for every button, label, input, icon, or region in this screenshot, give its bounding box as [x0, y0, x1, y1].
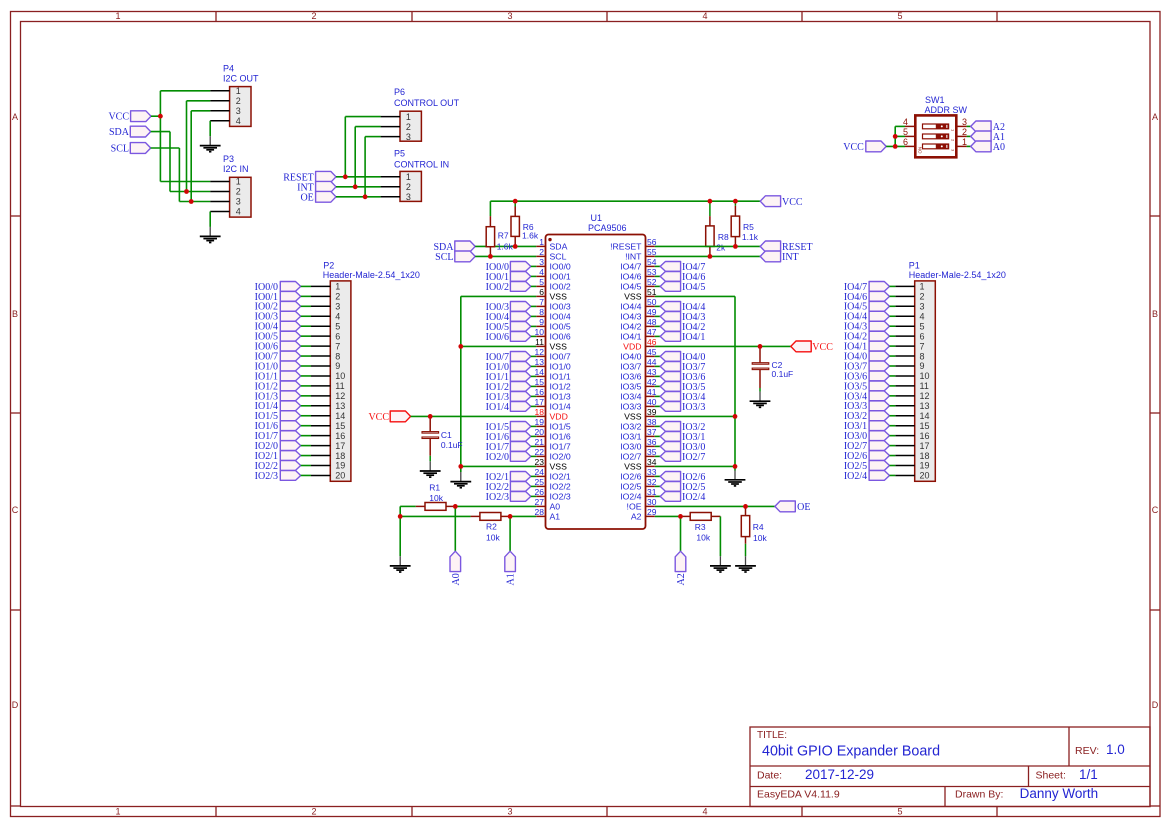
net flag VCC at VDD left — [368, 411, 410, 423]
net flag IO0/1 at U1 pin 4 — [486, 272, 537, 283]
svg-text:2017-12-29: 2017-12-29 — [805, 767, 874, 782]
net flag IO4/2 at P1 pin 6 — [844, 331, 895, 342]
svg-text:IO0/1: IO0/1 — [550, 271, 571, 281]
net flag A2 — [967, 121, 1005, 133]
net flag RESET right — [760, 241, 812, 253]
svg-text:18: 18 — [920, 451, 930, 461]
svg-text:IO4/5: IO4/5 — [620, 281, 641, 291]
svg-text:1.6k: 1.6k — [522, 231, 539, 241]
svg-text:IO3/5: IO3/5 — [620, 381, 641, 391]
svg-text:3: 3 — [406, 132, 411, 142]
svg-text:5: 5 — [897, 11, 902, 21]
net flag VCC — [108, 111, 151, 123]
net flag IO3/1 at P1 pin 15 — [844, 421, 895, 432]
title block — [750, 727, 1150, 807]
resistor R3 — [681, 513, 721, 543]
svg-text:IO4/1: IO4/1 — [682, 332, 705, 343]
svg-text:P4: P4 — [223, 64, 234, 74]
junction OE — [363, 194, 368, 199]
capacitor C2 — [752, 346, 793, 391]
svg-text:IO0/0: IO0/0 — [550, 261, 571, 271]
connector P2 Header-Male-2.54_1x20 — [311, 260, 420, 481]
ground R3 — [710, 556, 731, 572]
svg-text:1.1k: 1.1k — [742, 232, 759, 242]
svg-text:1: 1 — [115, 11, 120, 21]
svg-text:IO0/4: IO0/4 — [550, 311, 571, 321]
svg-text:11: 11 — [535, 337, 544, 347]
net flag IO3/3 at U1 pin 40 — [655, 402, 706, 413]
svg-text:U1: U1 — [591, 213, 603, 223]
wire VSS right rail — [655, 296, 735, 470]
svg-text:13: 13 — [335, 401, 345, 411]
svg-text:IO1/0: IO1/0 — [550, 361, 571, 371]
svg-text:ON: ON — [918, 147, 923, 154]
svg-text:1.0: 1.0 — [1106, 742, 1125, 757]
junction R6 SDA — [513, 244, 518, 249]
svg-text:VSS: VSS — [550, 461, 568, 471]
junction A1 gnd — [398, 514, 403, 519]
svg-text:I2C OUT: I2C OUT — [223, 74, 259, 84]
svg-text:5: 5 — [897, 807, 902, 817]
net flag IO2/6 at P1 pin 18 — [844, 451, 895, 462]
ground VSS left — [450, 472, 471, 488]
svg-text:15: 15 — [920, 421, 930, 431]
svg-text:IO2/5: IO2/5 — [620, 481, 641, 491]
svg-text:VDD: VDD — [623, 341, 641, 351]
svg-text:R2: R2 — [486, 522, 497, 532]
sheet cell — [1036, 767, 1098, 782]
svg-text:6: 6 — [335, 331, 340, 341]
svg-text:1: 1 — [920, 282, 925, 292]
net flag IO2/4 at U1 pin 31 — [655, 492, 706, 503]
svg-text:IO1/5: IO1/5 — [550, 421, 571, 431]
svg-text:IO1/3: IO1/3 — [550, 391, 571, 401]
svg-text:2: 2 — [311, 807, 316, 817]
net flag IO1/6 at P2 pin 15 — [255, 421, 311, 432]
date row — [757, 767, 874, 782]
svg-text:VCC: VCC — [843, 142, 864, 153]
svg-text:VCC: VCC — [812, 342, 833, 353]
svg-text:A0: A0 — [993, 142, 1005, 153]
svg-text:IO3/3: IO3/3 — [620, 401, 641, 411]
wire A2 row — [655, 515, 681, 517]
wire VCC to P4.1 P3.1 — [151, 91, 210, 182]
junction VSS left b — [458, 464, 463, 469]
net flag INT — [297, 181, 336, 193]
svg-text:I2C IN: I2C IN — [223, 164, 249, 174]
svg-text:IO2/4: IO2/4 — [844, 471, 867, 482]
svg-text:TITLE:: TITLE: — [757, 730, 787, 741]
svg-text:IO3/0: IO3/0 — [620, 441, 641, 451]
connector P6 — [381, 87, 460, 142]
svg-text:2: 2 — [962, 127, 967, 137]
net flag SDA at U1 — [433, 241, 475, 253]
svg-text:3: 3 — [335, 302, 340, 312]
svg-text:3: 3 — [236, 106, 241, 116]
svg-text:8: 8 — [335, 351, 340, 361]
junction R6 top — [513, 199, 518, 204]
svg-text:3: 3 — [236, 197, 241, 207]
svg-text:16: 16 — [335, 431, 345, 441]
net flag INT right — [760, 251, 798, 263]
svg-text:!RESET: !RESET — [610, 241, 642, 251]
wire VCC to SW1 — [886, 126, 905, 146]
svg-text:OE: OE — [797, 502, 810, 513]
svg-text:IO2/4: IO2/4 — [682, 492, 705, 503]
ground R1 — [390, 556, 411, 572]
svg-text:IO2/2: IO2/2 — [550, 481, 571, 491]
net flag IO3/7 at P1 pin 9 — [844, 361, 895, 372]
net flag IO2/7 at P1 pin 17 — [844, 441, 895, 452]
svg-text:IO1/7: IO1/7 — [550, 441, 571, 451]
net flag IO1/5 at U1 pin 19 — [486, 422, 537, 433]
net flag IO4/5 at U1 pin 52 — [655, 282, 706, 293]
svg-text:2: 2 — [236, 96, 241, 106]
rev text — [1075, 742, 1125, 757]
junction VCC SW1 b — [893, 144, 898, 149]
svg-text:8: 8 — [920, 351, 925, 361]
ground R4 — [735, 556, 756, 572]
svg-text:1: 1 — [539, 237, 544, 247]
svg-text:2: 2 — [406, 122, 411, 132]
net flag SDA — [109, 126, 151, 138]
svg-text:20: 20 — [920, 471, 930, 481]
svg-text:1: 1 — [406, 172, 411, 182]
U1 right pin names — [610, 241, 642, 521]
svg-text:7: 7 — [920, 341, 925, 351]
svg-text:IO0/6: IO0/6 — [550, 331, 571, 341]
svg-text:IO2/3: IO2/3 — [550, 491, 571, 501]
svg-text:1: 1 — [115, 807, 120, 817]
wire VCC top rail — [490, 201, 760, 216]
net flag IO1/3 at U1 pin 16 — [486, 392, 537, 403]
net flag RESET — [283, 171, 336, 183]
svg-text:VSS: VSS — [550, 341, 568, 351]
svg-text:5: 5 — [335, 321, 340, 331]
svg-text:A: A — [1152, 112, 1158, 122]
svg-text:R7: R7 — [498, 231, 509, 241]
junction VSS right b — [733, 464, 738, 469]
wire A0 flag drop — [454, 506, 456, 551]
svg-text:A0: A0 — [550, 501, 561, 511]
wire RESET to P5.1 P6.1 — [336, 117, 381, 177]
net flag SCL at U1 — [435, 251, 475, 263]
net flag IO4/2 at U1 pin 48 — [655, 322, 706, 333]
net flag IO1/7 at U1 pin 21 — [486, 442, 537, 453]
svg-text:VSS: VSS — [624, 461, 642, 471]
net flag IO0/6 at U1 pin 10 — [486, 332, 537, 343]
net flag IO3/2 at P1 pin 14 — [844, 411, 895, 422]
net flag IO3/5 at U1 pin 42 — [655, 382, 706, 393]
svg-text:2k: 2k — [716, 242, 726, 252]
svg-text:17: 17 — [920, 441, 930, 451]
svg-text:6: 6 — [920, 331, 925, 341]
svg-text:2: 2 — [920, 292, 925, 302]
net flag IO3/6 at P1 pin 10 — [844, 371, 895, 382]
svg-text:15: 15 — [335, 421, 345, 431]
svg-text:9: 9 — [539, 317, 544, 327]
svg-text:IO4/2: IO4/2 — [620, 321, 641, 331]
net flag IO0/5 at U1 pin 9 — [486, 322, 537, 333]
net flag IO0/3 at P2 pin 4 — [255, 311, 311, 322]
svg-text:10: 10 — [335, 371, 345, 381]
svg-text:4: 4 — [702, 807, 707, 817]
ground VSS right — [725, 471, 746, 486]
net flag IO4/1 at P1 pin 7 — [844, 341, 895, 352]
drawn by — [955, 786, 1098, 801]
svg-text:10: 10 — [920, 371, 930, 381]
junction R8 INT — [708, 254, 713, 259]
net flag IO0/7 at U1 pin 12 — [486, 352, 537, 363]
svg-text:14: 14 — [335, 411, 345, 421]
net flag A1 bottom — [505, 551, 517, 585]
net flag IO3/6 at U1 pin 43 — [655, 372, 706, 383]
svg-text:P3: P3 — [223, 154, 234, 164]
net flag IO4/7 at P1 pin 1 — [844, 282, 895, 293]
svg-text:IO0/2: IO0/2 — [550, 281, 571, 291]
svg-text:3: 3 — [406, 192, 411, 202]
svg-text:3: 3 — [920, 302, 925, 312]
svg-text:1: 1 — [335, 282, 340, 292]
svg-text:3: 3 — [507, 11, 512, 21]
ground C2 — [750, 392, 771, 408]
wire P4.4 to ground — [209, 121, 211, 136]
svg-text:6: 6 — [539, 287, 544, 297]
svg-text:VCC: VCC — [108, 112, 129, 123]
net flag A0 bottom — [450, 551, 462, 585]
resistor R4 — [741, 506, 767, 556]
svg-text:P2: P2 — [323, 260, 334, 270]
net flag IO0/2 at P2 pin 3 — [255, 301, 311, 312]
junction SDA — [184, 189, 189, 194]
net flag IO2/3 at U1 pin 26 — [486, 492, 537, 503]
svg-text:C: C — [1152, 505, 1159, 515]
net flag IO3/4 at P1 pin 12 — [844, 391, 895, 402]
svg-text:2: 2 — [406, 182, 411, 192]
svg-text:20: 20 — [335, 471, 345, 481]
svg-text:IO3/1: IO3/1 — [620, 431, 641, 441]
net flag IO1/6 at U1 pin 20 — [486, 432, 537, 443]
resistor R6 — [511, 201, 539, 246]
svg-text:A2: A2 — [676, 573, 687, 585]
svg-text:SCL: SCL — [435, 252, 453, 263]
net flag IO2/6 at U1 pin 33 — [655, 472, 706, 483]
svg-text:ADDR SW: ADDR SW — [925, 105, 968, 115]
net flag IO2/3 at P2 pin 20 — [255, 471, 311, 482]
junction R8 top — [708, 199, 713, 204]
U1 right pins — [646, 246, 655, 516]
net flag IO3/4 at U1 pin 41 — [655, 392, 706, 403]
svg-text:0.1uF: 0.1uF — [772, 369, 794, 379]
net flag IO0/3 at U1 pin 7 — [486, 302, 537, 313]
svg-text:IO4/5: IO4/5 — [682, 282, 705, 293]
junction SCL — [189, 199, 194, 204]
net flag IO2/5 at U1 pin 32 — [655, 482, 706, 493]
net flag IO1/0 at P2 pin 9 — [255, 361, 311, 372]
svg-text:A: A — [12, 112, 18, 122]
net flag IO4/5 at P1 pin 3 — [844, 301, 895, 312]
svg-text:IO2/7: IO2/7 — [682, 452, 705, 463]
net flag VCC top — [760, 196, 803, 208]
junction R2 A1 — [508, 514, 513, 519]
junction R3 A2 — [678, 514, 683, 519]
wire RESET row — [655, 245, 760, 247]
svg-text:7: 7 — [539, 297, 544, 307]
svg-text:Date:: Date: — [757, 770, 782, 782]
svg-text:R4: R4 — [753, 522, 764, 532]
svg-text:3: 3 — [539, 257, 544, 267]
net flag IO0/4 at U1 pin 8 — [486, 312, 537, 323]
svg-text:IO2/0: IO2/0 — [550, 451, 571, 461]
wire VDD left row — [411, 415, 537, 417]
resistor R1 — [416, 483, 456, 511]
svg-text:5: 5 — [539, 277, 544, 287]
svg-text:14: 14 — [920, 411, 930, 421]
svg-text:IO2/3: IO2/3 — [486, 492, 509, 503]
capacitor C1 — [422, 416, 463, 461]
svg-text:Danny Worth: Danny Worth — [1020, 786, 1099, 801]
wire A1 row — [400, 515, 536, 517]
svg-text:VCC: VCC — [368, 412, 389, 423]
svg-text:19: 19 — [335, 461, 345, 471]
svg-text:VSS: VSS — [624, 291, 642, 301]
net flag IO1/0 at U1 pin 13 — [486, 362, 537, 373]
junction RESET — [343, 174, 348, 179]
net flag IO4/3 at P1 pin 5 — [844, 321, 895, 332]
net flag A0 — [967, 141, 1005, 153]
net flag IO3/3 at P1 pin 13 — [844, 401, 895, 412]
svg-text:VCC: VCC — [782, 197, 803, 208]
svg-text:R8: R8 — [718, 232, 729, 242]
junction R1 A0 — [453, 504, 458, 509]
svg-text:EasyEDA V4.11.9: EasyEDA V4.11.9 — [757, 789, 840, 801]
svg-text:IO2/3: IO2/3 — [255, 471, 278, 482]
svg-text:PCA9506: PCA9506 — [588, 223, 627, 233]
net flag IO4/4 at U1 pin 50 — [655, 302, 706, 313]
wire INT row — [655, 255, 760, 257]
wire SDA row — [475, 245, 536, 247]
svg-text:12: 12 — [920, 391, 930, 401]
svg-text:INT: INT — [782, 252, 799, 263]
net flag VCC at SW1 — [843, 141, 886, 153]
svg-text:A1: A1 — [506, 573, 517, 585]
svg-text:4: 4 — [702, 11, 707, 21]
net flag IO1/4 at U1 pin 17 — [486, 402, 537, 413]
svg-text:4: 4 — [236, 207, 241, 217]
net flag IO4/4 at P1 pin 4 — [844, 311, 895, 322]
svg-text:19: 19 — [920, 461, 930, 471]
svg-text:IO3/2: IO3/2 — [620, 421, 641, 431]
svg-text:P6: P6 — [394, 87, 405, 97]
wire A2 flag drop — [680, 516, 682, 551]
junction VCC SW1 a — [893, 134, 898, 139]
svg-text:IO0/7: IO0/7 — [550, 351, 571, 361]
title text — [757, 730, 940, 760]
svg-text:3: 3 — [962, 117, 967, 127]
net flag IO1/4 at P2 pin 13 — [255, 401, 311, 412]
svg-text:1.6k: 1.6k — [497, 242, 514, 252]
wire A0 row — [400, 505, 536, 507]
net flag IO4/6 at U1 pin 53 — [655, 272, 706, 283]
svg-text:D: D — [12, 700, 19, 710]
svg-text:17: 17 — [335, 441, 345, 451]
wire R1 to ground with A1 branch — [399, 506, 401, 556]
net flag A1 — [967, 131, 1005, 143]
wire SDA to P4.2 P3.2 — [151, 101, 211, 192]
ground P3 — [200, 227, 221, 243]
svg-text:0.1uF: 0.1uF — [441, 440, 463, 450]
easyeda version — [757, 789, 840, 801]
svg-text:Drawn By:: Drawn By: — [955, 789, 1003, 801]
wire A1 flag drop — [509, 516, 511, 551]
svg-text:IO1/6: IO1/6 — [550, 431, 571, 441]
svg-text:IO2/0: IO2/0 — [486, 452, 509, 463]
svg-text:SCL: SCL — [111, 144, 129, 155]
svg-text:A0: A0 — [451, 573, 462, 585]
svg-text:40bit GPIO Expander Board: 40bit GPIO Expander Board — [762, 744, 940, 760]
svg-text:9: 9 — [335, 361, 340, 371]
svg-text:1/1: 1/1 — [1079, 767, 1098, 782]
svg-text:IO1/4: IO1/4 — [550, 401, 571, 411]
svg-text:2: 2 — [236, 187, 241, 197]
net flag IO2/2 at P2 pin 19 — [255, 461, 311, 472]
net flag IO0/7 at P2 pin 8 — [255, 351, 311, 362]
ruler column numbers — [115, 11, 902, 817]
svg-text:IO1/1: IO1/1 — [550, 371, 571, 381]
svg-text:1: 1 — [236, 177, 241, 187]
net flag IO3/0 at U1 pin 36 — [655, 442, 706, 453]
net flag IO1/7 at P2 pin 16 — [255, 431, 311, 442]
svg-text:2: 2 — [335, 292, 340, 302]
svg-text:SDA: SDA — [550, 241, 568, 251]
junction R7 SCL — [488, 254, 493, 259]
wire INT to P5.2 P6.2 — [336, 127, 381, 187]
net flag IO2/0 at P2 pin 17 — [255, 441, 311, 452]
svg-text:Sheet:: Sheet: — [1036, 770, 1066, 782]
svg-text:IO4/7: IO4/7 — [620, 261, 641, 271]
net flag IO2/1 at P2 pin 18 — [255, 451, 311, 462]
svg-text:10k: 10k — [696, 532, 710, 542]
net flag IO1/2 at U1 pin 15 — [486, 382, 537, 393]
op-amp U1 PCA9506 body — [546, 213, 646, 529]
junction R5 RESET — [733, 244, 738, 249]
net flag IO4/6 at P1 pin 2 — [844, 291, 895, 302]
ground P4 — [200, 136, 221, 152]
net flag IO1/1 at U1 pin 14 — [486, 372, 537, 383]
junction R5 top — [733, 199, 738, 204]
net flag IO0/2 at U1 pin 5 — [486, 282, 537, 293]
svg-text:2: 2 — [311, 11, 316, 21]
svg-text:P5: P5 — [394, 149, 405, 159]
svg-text:R5: R5 — [743, 222, 754, 232]
svg-text:A1: A1 — [550, 511, 561, 521]
resistor R5 — [731, 201, 759, 246]
svg-text:IO3/3: IO3/3 — [682, 402, 705, 413]
svg-text:18: 18 — [335, 451, 345, 461]
svg-text:1: 1 — [236, 86, 241, 96]
svg-text:1: 1 — [962, 137, 967, 147]
svg-text:IO1/2: IO1/2 — [550, 381, 571, 391]
svg-text:Header-Male-2.54_1x20: Header-Male-2.54_1x20 — [909, 270, 1006, 280]
svg-text:B: B — [1152, 309, 1158, 319]
net flag IO2/4 at P1 pin 20 — [844, 471, 895, 482]
svg-text:4: 4 — [920, 311, 925, 321]
svg-text:SCL: SCL — [550, 251, 567, 261]
svg-text:10k: 10k — [486, 532, 500, 542]
net flag IO1/2 at P2 pin 11 — [255, 381, 311, 392]
svg-text:IO2/1: IO2/1 — [550, 471, 571, 481]
svg-text:OE: OE — [300, 192, 313, 203]
